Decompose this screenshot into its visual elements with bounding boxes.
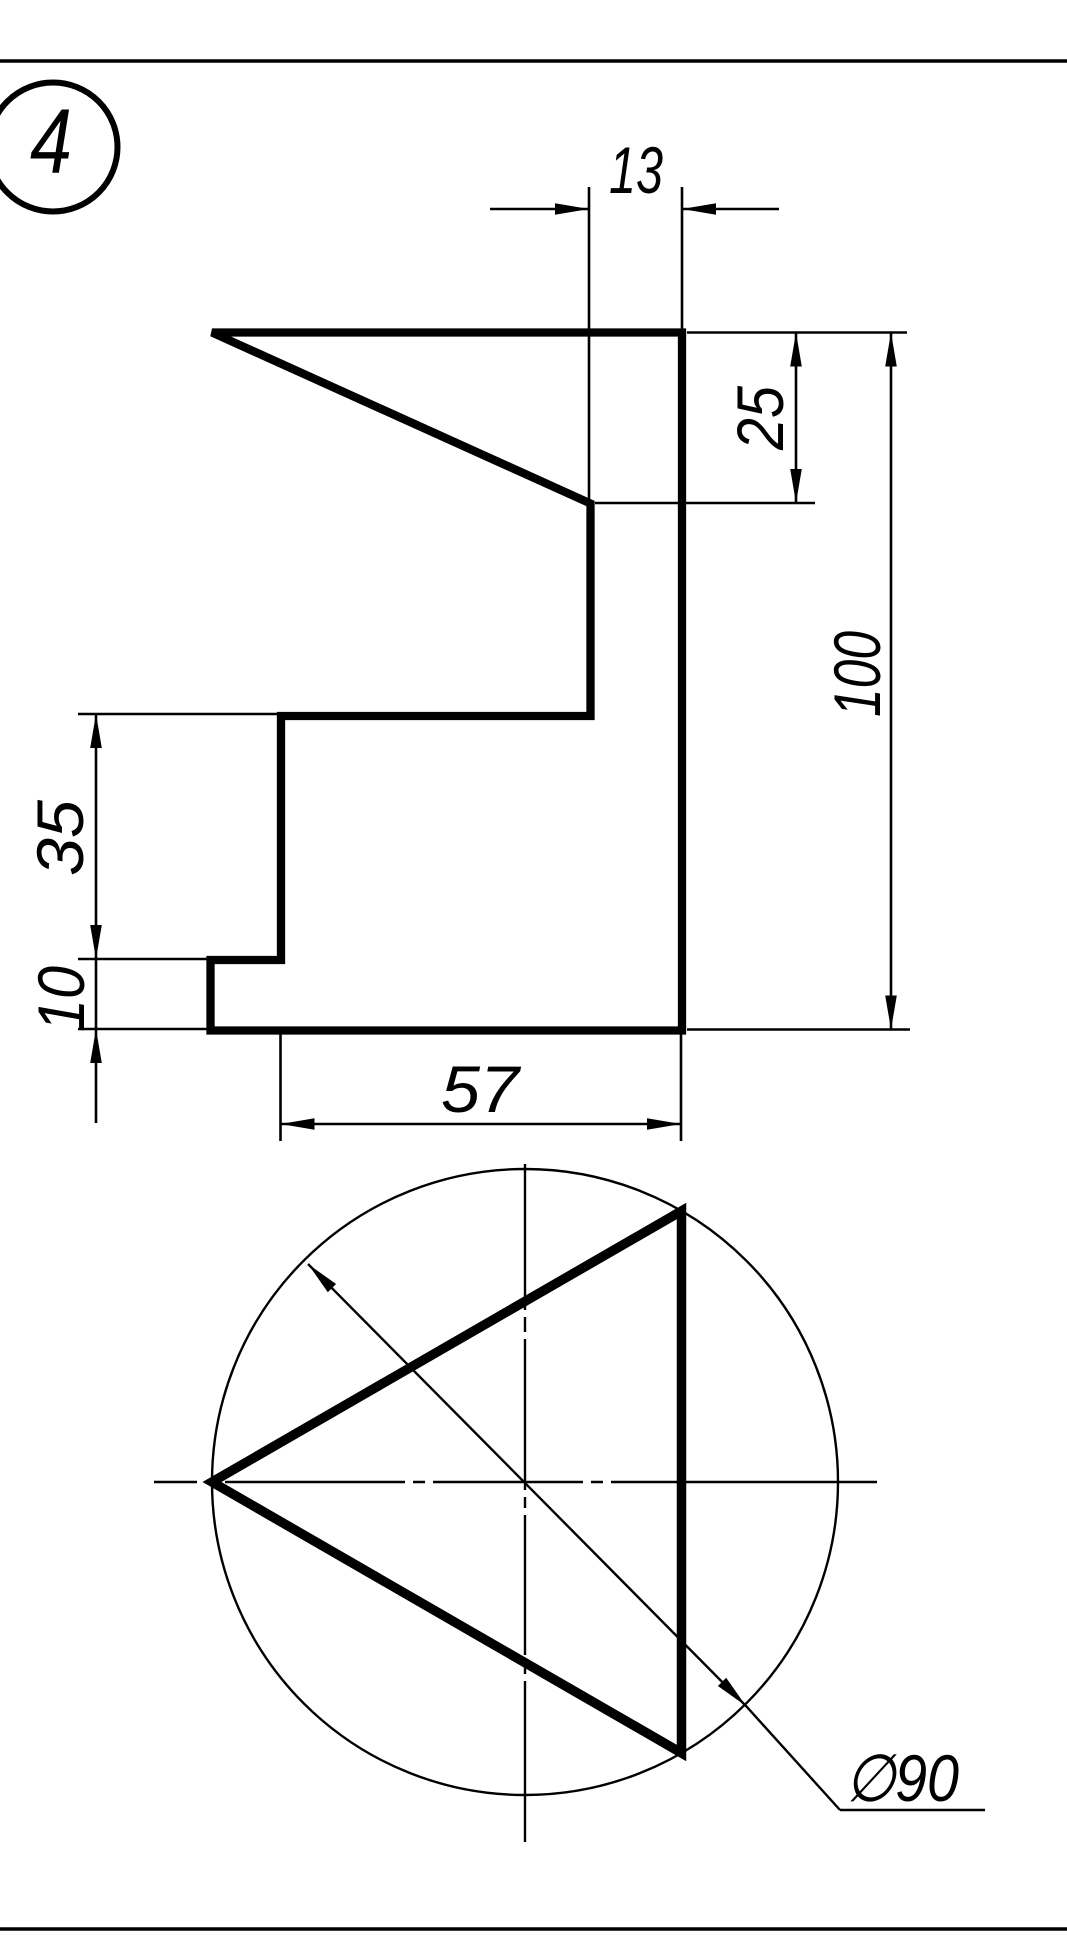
dim 35 arrow top (90, 714, 102, 748)
dim 100 line (890, 333, 893, 1030)
dim 35 extension line top (78, 713, 277, 716)
dim 25 extension line bottom (595, 502, 815, 505)
dim 13 line right leg (682, 208, 779, 211)
svg-text:4: 4 (30, 91, 72, 193)
centerline vertical (524, 1164, 526, 1842)
dim 10 extension line bottom (78, 1028, 210, 1031)
dim 57 arrow right (647, 1118, 681, 1130)
dim d90 leader underline (840, 1809, 985, 1811)
centerline horizontal (154, 1481, 877, 1483)
svg-text:35: 35 (23, 800, 97, 876)
balloon circle 4 (0, 83, 118, 212)
dim 13 arrow left (555, 203, 589, 215)
dim 13 line left leg (490, 208, 589, 211)
dim 13 extension line right (681, 187, 684, 332)
svg-text:∅90: ∅90 (845, 1741, 959, 1815)
dim d90 diameter line (308, 1264, 840, 1810)
dim 25 arrow top (790, 333, 802, 367)
dim d90 arrow upper-left (304, 1260, 336, 1292)
svg-text:100: 100 (820, 631, 894, 717)
dim 13 extension line left (588, 187, 591, 503)
bottom border (0, 1927, 1067, 1930)
top border (0, 59, 1067, 62)
svg-text:57: 57 (441, 1052, 521, 1126)
dim 57 arrow left (281, 1118, 315, 1130)
svg-text:25: 25 (723, 386, 797, 451)
dim 35 arrow bottom (90, 925, 102, 959)
dim 57 line (281, 1123, 682, 1126)
dim 25 line (795, 333, 798, 504)
bottom view circle (212, 1169, 838, 1795)
svg-text:13: 13 (609, 133, 663, 207)
dim 35/10 dimension line (95, 714, 98, 1123)
dim 10 arrow (outside, below, pointing up) (90, 1029, 102, 1063)
part outline (front view) (211, 333, 683, 1031)
dim 35 extension line bottom (78, 958, 210, 961)
dim 100 arrow top (885, 333, 897, 367)
triangle (inscribed) (212, 1211, 682, 1753)
dim 25 extension line top (687, 331, 907, 334)
dim 13 arrow right (682, 203, 716, 215)
svg-text:10: 10 (24, 966, 98, 1032)
dim 100 arrow bottom (885, 996, 897, 1030)
dim d90 arrow lower-right (718, 1678, 750, 1710)
dim 25 arrow bottom (790, 469, 802, 503)
dim 57 extension line right (680, 1032, 683, 1141)
dim 57 extension line left (279, 1032, 282, 1141)
dim 100 extension line bottom (687, 1028, 910, 1031)
